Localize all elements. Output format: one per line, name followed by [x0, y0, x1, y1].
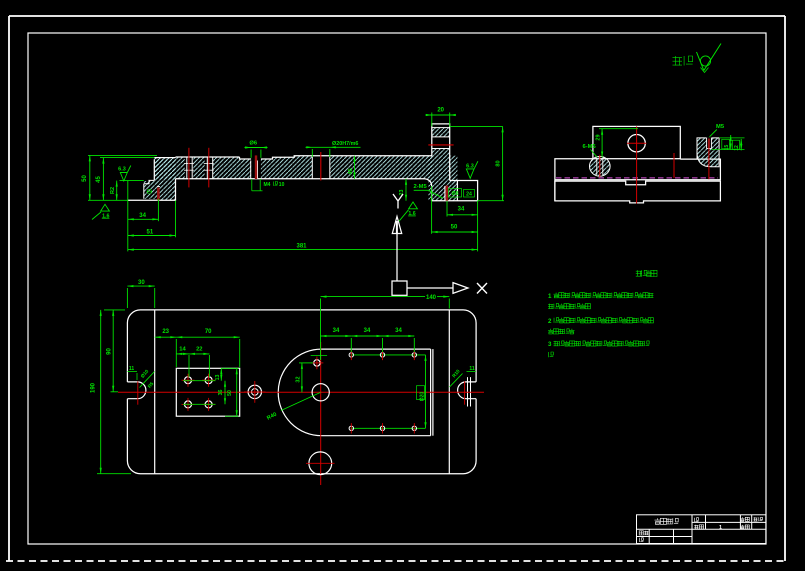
svg-text:M5: M5	[716, 124, 725, 130]
plate green hole-row lines	[183, 380, 216, 382]
svg-text:51: 51	[147, 229, 154, 235]
dim 29 side view	[601, 129, 603, 158]
dim 90 plan left	[112, 310, 114, 392]
svg-text:24: 24	[466, 192, 472, 198]
dim 14	[176, 353, 189, 355]
4-hole plate	[176, 368, 239, 416]
svg-text:1: 1	[719, 525, 722, 531]
note line 6	[549, 352, 554, 357]
boxed basic dims right foot	[449, 189, 462, 198]
svg-text:14: 14	[179, 347, 186, 353]
plan step line left	[154, 310, 156, 474]
plan obround pocket	[278, 349, 430, 436]
UCS Y axis arrow	[396, 234, 398, 281]
svg-text:6.3: 6.3	[466, 163, 474, 169]
hatch: tower bands	[432, 127, 450, 136]
dim 23	[155, 336, 177, 338]
svg-text:34: 34	[333, 328, 340, 334]
side view M5 boss left (hatched)	[590, 156, 611, 176]
svg-text:32: 32	[295, 376, 301, 382]
hole wall lines	[186, 158, 188, 179]
dim 34 right foot	[447, 214, 478, 216]
dim 190 plan left outer	[100, 310, 102, 474]
svg-text:90: 90	[107, 348, 113, 355]
svg-text:381: 381	[296, 243, 307, 249]
front view part outline top edges	[154, 156, 432, 159]
svg-text:11: 11	[469, 366, 475, 372]
hatch: right foot	[429, 156, 458, 201]
svg-text:34: 34	[139, 213, 146, 219]
right notch red cross	[464, 381, 466, 404]
svg-text:45: 45	[96, 176, 102, 183]
dim 30 plan top-left	[127, 285, 154, 287]
side view upper block	[593, 126, 680, 158]
side view center hole circle	[628, 135, 645, 152]
svg-text:12: 12	[734, 145, 740, 151]
X label	[477, 283, 487, 294]
UCS box	[392, 281, 407, 295]
UCS X axis arrow	[407, 287, 453, 289]
svg-text:6-M5: 6-M5	[583, 144, 597, 150]
datum Y symbol	[393, 194, 403, 209]
svg-text:M4: M4	[264, 182, 271, 188]
plate holes with red crosses	[185, 377, 192, 384]
front section view hatch: bar left	[154, 157, 239, 179]
dim 70	[176, 336, 239, 338]
dim phi6	[245, 147, 268, 149]
dim phi20 H7/m6	[306, 146, 361, 148]
svg-text:30: 30	[138, 280, 145, 286]
svg-text:6.3: 6.3	[118, 166, 126, 172]
svg-text:Ø20H7/m6: Ø20H7/m6	[332, 141, 358, 147]
dim 50 plate	[236, 368, 238, 416]
roughness 6.3 right foot	[466, 161, 478, 178]
obround center hole	[312, 384, 329, 401]
red main centerlines plan	[118, 391, 484, 393]
left foot outline	[128, 179, 176, 201]
obround offset hole	[314, 360, 320, 366]
hatch: notch zone	[240, 159, 273, 179]
label M4 depth 10	[251, 179, 253, 191]
svg-text:190: 190	[91, 382, 97, 393]
boxed dim phi20 in obround	[425, 355, 427, 428]
svg-text:11: 11	[129, 366, 135, 372]
bottom circle	[309, 452, 332, 475]
dim 80 tower-to-base height	[450, 125, 503, 127]
title block frame	[637, 515, 766, 544]
thread ticks in dowel holes	[184, 163, 194, 165]
red centerlines side view	[636, 126, 638, 203]
hatch: bar right	[294, 156, 432, 179]
small green pin mark	[147, 189, 151, 193]
small hole rows in obround (green lines + holes)	[351, 354, 426, 356]
dim 50 overall height left	[89, 155, 91, 200]
svg-text:15: 15	[724, 145, 730, 151]
svg-text:45: 45	[348, 168, 354, 175]
title text (part name)	[655, 518, 661, 524]
dims 34x3 hole spacing	[321, 335, 352, 337]
svg-text:20: 20	[437, 108, 444, 114]
dim 32	[301, 363, 303, 393]
dim 20 tower	[426, 114, 457, 116]
svg-text:Ø8: Ø8	[452, 191, 459, 197]
R40 leader	[281, 392, 321, 410]
svg-text:140: 140	[426, 295, 437, 301]
left end edges (green layer)	[127, 181, 129, 201]
left notch red cross	[137, 381, 139, 404]
svg-text:13: 13	[215, 375, 221, 381]
svg-text:34: 34	[458, 206, 465, 212]
magenta centerline	[556, 177, 718, 179]
side view mid band outline	[555, 159, 721, 201]
sheet bottom dashed border	[6, 560, 786, 562]
roughness 6.3 left step	[120, 166, 131, 182]
roughness 1.6 lower left	[92, 212, 101, 220]
svg-text:3: 3	[548, 341, 552, 348]
svg-text:34: 34	[395, 328, 402, 334]
svg-text:Ø6: Ø6	[249, 141, 258, 147]
roughness 1.6 mid	[409, 202, 418, 209]
hatch: tall left block	[154, 158, 175, 201]
svg-text:R2: R2	[110, 187, 116, 194]
dim 45 left	[102, 158, 104, 201]
right foot outline	[432, 181, 478, 201]
dim 50 right foot	[432, 231, 478, 233]
svg-text:70: 70	[205, 329, 212, 335]
svg-text:2-M5: 2-M5	[414, 184, 428, 190]
M5 hole core (red)	[708, 139, 710, 149]
surface roughness note (top right): text and symbol	[673, 56, 683, 66]
title block small labels	[695, 518, 699, 522]
plan step line right (tower edge)	[448, 310, 450, 474]
dim R2 step	[116, 181, 118, 201]
svg-text:Ø20: Ø20	[419, 392, 425, 402]
dim 34 left foot	[128, 218, 159, 220]
svg-text:50: 50	[82, 175, 88, 182]
svg-text:2: 2	[548, 318, 552, 325]
dim 45 bar height	[354, 156, 356, 179]
dim 23 foot step height	[405, 179, 407, 201]
hatch: bar middle	[273, 157, 295, 179]
tower (bushing column) outline	[432, 124, 450, 181]
plan view outline (rounded rect)	[127, 310, 476, 474]
side view lower band	[555, 181, 721, 203]
short green tick near offset hole	[311, 354, 327, 356]
note line 4	[548, 329, 553, 334]
dim 13 plate	[220, 368, 222, 380]
dim 381 overall	[128, 249, 478, 251]
svg-text:10: 10	[279, 182, 285, 188]
holes cut-outs	[185, 156, 193, 179]
side view right hatched bracket	[697, 138, 719, 167]
note line 2	[548, 304, 553, 309]
svg-text:50: 50	[451, 225, 458, 231]
dim 140 plan top	[321, 296, 426, 298]
notes header (technical requirements)	[636, 270, 642, 276]
red centerlines front view	[188, 148, 190, 188]
dim 36 plate	[224, 381, 226, 405]
svg-text:34: 34	[364, 328, 371, 334]
svg-text:36: 36	[218, 390, 224, 396]
dim 22	[189, 353, 209, 355]
svg-text:29: 29	[595, 134, 601, 140]
hatch: small left sub-block	[144, 181, 155, 199]
dowel pin right	[444, 186, 446, 201]
side view right small dims 15 and 12	[719, 137, 744, 139]
svg-text:50: 50	[227, 390, 233, 396]
svg-text:22: 22	[196, 347, 202, 353]
center double circle	[248, 385, 261, 398]
left U-notch	[127, 382, 146, 399]
dim 51 left foot	[128, 235, 176, 237]
svg-text:23: 23	[162, 329, 169, 335]
right U-notch	[458, 382, 477, 399]
dowel pin left	[157, 188, 160, 201]
bar bottom edge with fillet	[176, 179, 432, 201]
svg-text:1: 1	[548, 293, 552, 300]
svg-text:80: 80	[496, 160, 502, 166]
